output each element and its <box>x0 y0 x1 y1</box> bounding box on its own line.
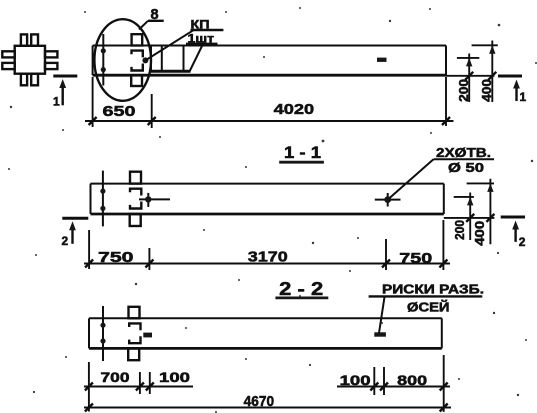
svg-text:400: 400 <box>472 221 487 246</box>
svg-text:ØСЕЙ: ØСЕЙ <box>407 300 450 315</box>
riska foot mark bottom <box>374 332 386 336</box>
svg-text:2: 2 <box>519 235 526 249</box>
top view beam <box>93 46 446 76</box>
top axis line <box>102 34 104 86</box>
1sht underline <box>186 43 218 45</box>
KP underline <box>191 29 224 31</box>
svg-text:700: 700 <box>101 370 130 385</box>
svg-text:1шт: 1шт <box>188 34 215 46</box>
middle stiffener tab lower <box>130 214 141 226</box>
bottom stiffener tab upper <box>129 307 140 319</box>
svg-text:750: 750 <box>399 250 432 267</box>
middle axis line <box>102 171 104 227</box>
leader line KP <box>145 30 194 61</box>
svg-text:1: 1 <box>520 90 527 104</box>
svg-text:2: 2 <box>62 234 69 248</box>
middle stiffener tab upper <box>130 172 141 184</box>
riska leader <box>379 297 385 333</box>
svg-text:1: 1 <box>53 95 60 109</box>
top stiffener tab upper <box>132 34 143 45</box>
svg-text:4020: 4020 <box>274 101 315 118</box>
dim 200/400 middle <box>444 179 495 244</box>
section marker 2 left <box>62 218 88 244</box>
middle bracket <box>130 189 141 209</box>
bottom axis line <box>102 306 104 361</box>
bottom small mark <box>143 333 152 338</box>
ticks top dim <box>89 117 450 125</box>
svg-text:200: 200 <box>456 79 471 102</box>
section marker 2 right <box>501 217 525 242</box>
middle hole crosshair right <box>375 193 401 207</box>
svg-text:200: 200 <box>452 220 467 240</box>
bottom stiffener tab lower <box>128 348 139 360</box>
section marker 1 right <box>498 76 522 101</box>
KP plate parallelogram <box>151 46 202 72</box>
svg-text:4670: 4670 <box>244 394 275 410</box>
svg-text:3170: 3170 <box>248 249 288 266</box>
dim 200/400 top <box>446 41 498 103</box>
top bolt dots <box>101 48 106 53</box>
section marker 1 left <box>53 76 77 105</box>
detail circle <box>94 19 151 101</box>
svg-text:100: 100 <box>340 373 371 388</box>
svg-text:КП: КП <box>191 18 210 32</box>
bottom bolt dots <box>100 323 105 328</box>
riska mark top <box>377 58 387 62</box>
svg-text:РИСКИ РАЗБ.: РИСКИ РАЗБ. <box>382 282 484 296</box>
svg-text:2ХØТВ.: 2ХØТВ. <box>436 145 491 160</box>
top leader dot <box>142 57 148 63</box>
dim line B 4670 <box>84 407 451 409</box>
svg-text:650: 650 <box>103 103 136 120</box>
svg-text:2 - 2: 2 - 2 <box>279 279 323 299</box>
svg-text:Ø 50: Ø 50 <box>448 160 484 175</box>
middle bolt dots <box>100 189 105 194</box>
bottom beam (section 2-2) <box>89 318 442 348</box>
leader 2 holes <box>389 159 434 198</box>
svg-text:1 - 1: 1 - 1 <box>284 143 321 162</box>
svg-text:400: 400 <box>479 79 494 102</box>
bottom bracket <box>129 323 140 343</box>
dim line 750/3170/750 <box>84 220 450 270</box>
svg-text:800: 800 <box>397 373 427 388</box>
svg-text:750: 750 <box>98 249 134 266</box>
top stiffener tab lower <box>131 75 142 86</box>
dim line A 700/100/100/800 <box>84 355 450 412</box>
top bracket <box>132 51 143 71</box>
middle beam (section 1-1) <box>91 184 444 214</box>
svg-text:100: 100 <box>159 370 190 385</box>
middle hole crosshair left <box>139 193 170 207</box>
svg-text:8: 8 <box>151 7 159 23</box>
label 8 leader <box>139 21 148 30</box>
column cross-section <box>2 34 57 85</box>
dim line 650/4020 <box>85 77 454 128</box>
